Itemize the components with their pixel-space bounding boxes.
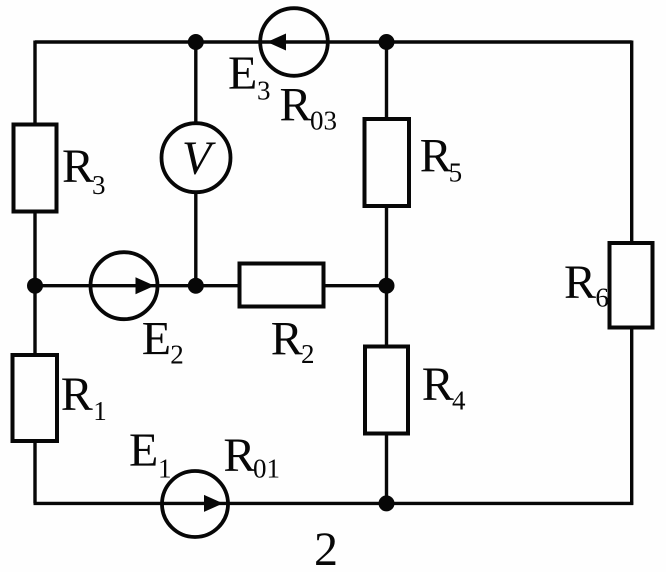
- wire top side: [35, 40, 632, 43]
- label E3: [228, 47, 271, 106]
- resistor R3 box: [14, 125, 57, 212]
- label E2: [142, 312, 184, 369]
- label R03: [280, 79, 338, 136]
- label R3: [62, 140, 106, 200]
- svg-text:R: R: [422, 358, 454, 411]
- voltage source E1/R01 circle body: [162, 471, 228, 537]
- svg-text:R: R: [223, 429, 255, 482]
- svg-text:1: 1: [93, 396, 107, 426]
- label R01: [223, 429, 280, 484]
- node middle-center: [188, 278, 204, 294]
- voltage source E3/R03 circle body: [260, 8, 328, 76]
- label R6: [564, 256, 609, 313]
- svg-text:5: 5: [449, 157, 463, 187]
- node middle-left: [27, 278, 43, 294]
- svg-text:6: 6: [595, 283, 609, 313]
- svg-text:R: R: [420, 130, 452, 183]
- svg-text:2: 2: [314, 523, 338, 572]
- resistor R5 box: [365, 119, 410, 206]
- wire middle horizontal branch: [35, 284, 387, 287]
- svg-text:V: V: [182, 132, 216, 185]
- label R5: [420, 130, 462, 188]
- wire voltmeter branch: [194, 42, 197, 286]
- wire bottom side: [34, 502, 634, 505]
- svg-text:03: 03: [310, 106, 337, 136]
- svg-text:2: 2: [301, 339, 315, 369]
- resistor R6 box: [610, 243, 653, 328]
- label R4: [422, 358, 466, 416]
- voltmeter V circle: [162, 123, 231, 192]
- svg-text:2: 2: [170, 339, 184, 369]
- node middle-right: [379, 278, 395, 294]
- node top-center (junction of voltmeter branch): [188, 34, 204, 50]
- resistor R4 box: [365, 347, 408, 434]
- svg-text:3: 3: [92, 170, 106, 200]
- svg-text:R: R: [564, 256, 596, 309]
- svg-text:R: R: [280, 79, 312, 132]
- resistor R2 box: [240, 264, 324, 307]
- label E1: [129, 424, 172, 484]
- svg-text:E: E: [142, 312, 171, 365]
- resistor R1 box: [13, 355, 58, 441]
- label R2: [271, 312, 315, 369]
- svg-text:E: E: [129, 424, 158, 477]
- svg-text:R: R: [62, 140, 94, 193]
- label R1: [61, 368, 107, 426]
- arrow of source E1 (pointing right): [204, 495, 223, 512]
- wire right side: [630, 41, 633, 505]
- svg-text:E: E: [228, 47, 257, 100]
- svg-text:3: 3: [257, 76, 271, 106]
- svg-text:4: 4: [452, 386, 466, 416]
- svg-text:R: R: [271, 312, 303, 365]
- wire left side: [33, 41, 36, 504]
- arrow of source E3 (pointing left): [267, 34, 286, 51]
- svg-text:1: 1: [158, 454, 172, 484]
- svg-text:01: 01: [253, 454, 280, 484]
- voltage source E2 circle body: [91, 252, 158, 319]
- node bottom-right (junction of R4 branch): [379, 495, 395, 511]
- arrow of source E2 (pointing right): [136, 277, 155, 294]
- wire center-right vertical branch: [385, 42, 388, 503]
- node top-right (junction of R5 branch): [379, 34, 395, 50]
- svg-text:R: R: [61, 368, 93, 421]
